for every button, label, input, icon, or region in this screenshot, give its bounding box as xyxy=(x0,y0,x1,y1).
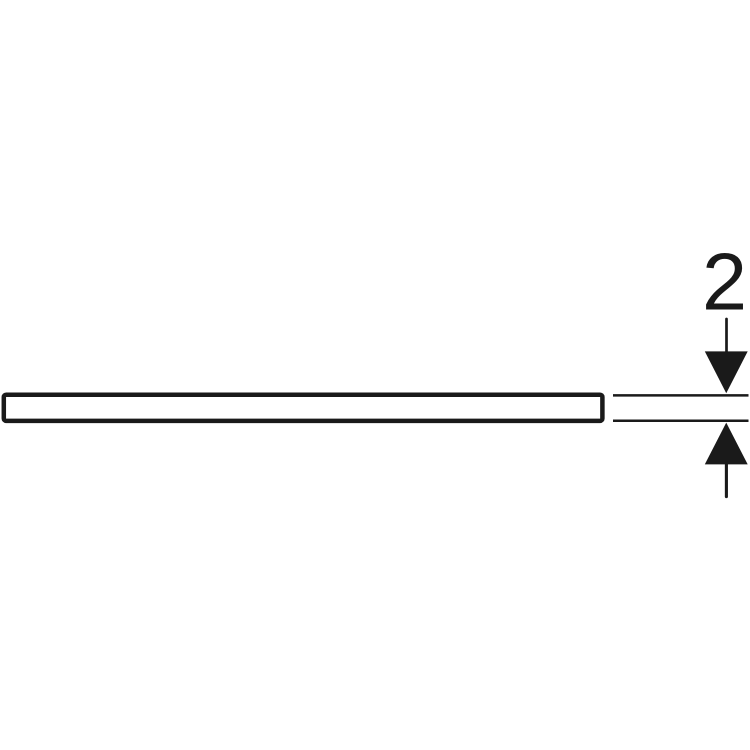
svg-text:2: 2 xyxy=(702,238,747,328)
